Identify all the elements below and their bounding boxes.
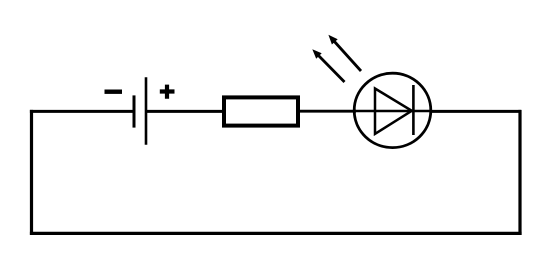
wire left vertical [30, 110, 33, 235]
LED cathode bar [412, 85, 415, 135]
light arrow 2 [328, 35, 361, 71]
battery B1 [105, 77, 175, 145]
LED circle [354, 73, 431, 147]
wire resistor to LED [300, 110, 356, 113]
label plus [160, 85, 175, 99]
LED anode triangle [375, 89, 412, 134]
battery negative plate [133, 95, 136, 127]
wire through LED [353, 110, 432, 113]
wire right vertical [518, 110, 521, 235]
label minus [105, 90, 123, 94]
light arrow 1 [312, 49, 344, 82]
wire LED to right [430, 110, 521, 113]
battery positive plate [145, 77, 148, 145]
wire battery to resistor [146, 110, 223, 113]
wire top-left to battery [30, 110, 134, 113]
wire bottom [30, 232, 522, 235]
resistor R1 [224, 97, 298, 125]
LED D1 [312, 35, 432, 148]
